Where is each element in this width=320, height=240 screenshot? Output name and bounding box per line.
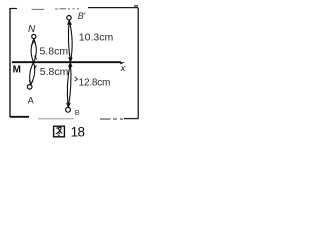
- svg-text:B: B: [75, 108, 80, 117]
- svg-text:12.8cm: 12.8cm: [79, 77, 111, 88]
- svg-text:A: A: [28, 95, 34, 105]
- svg-text:18: 18: [71, 125, 85, 140]
- svg-text:N: N: [28, 24, 36, 35]
- svg-text:B′: B′: [78, 11, 86, 21]
- svg-text:5.8cm: 5.8cm: [40, 66, 69, 78]
- svg-text:10.3cm: 10.3cm: [79, 31, 114, 43]
- svg-text:M: M: [13, 65, 21, 76]
- svg-text:x: x: [120, 63, 127, 74]
- svg-text:5.8cm: 5.8cm: [40, 46, 69, 58]
